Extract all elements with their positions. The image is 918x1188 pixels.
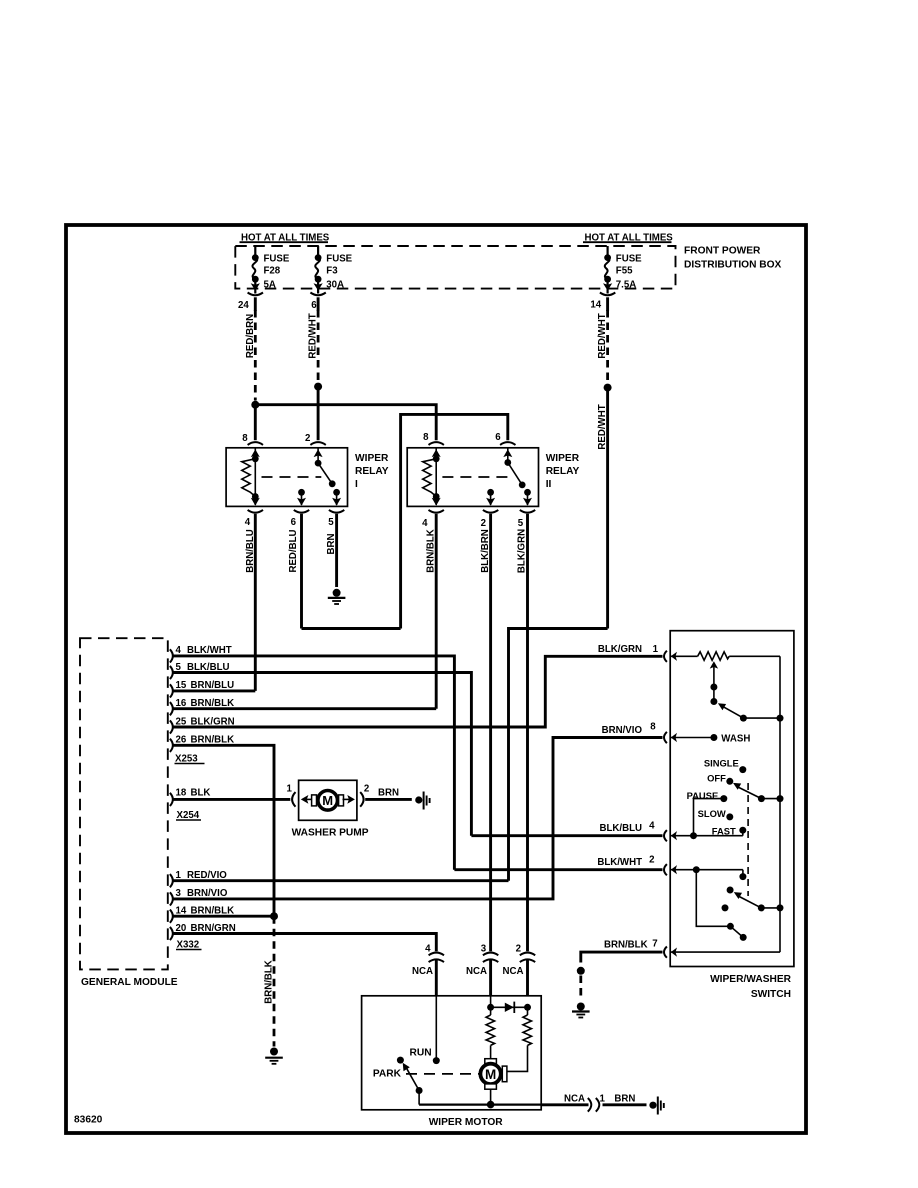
svg-text:4: 4 <box>422 518 428 529</box>
svg-text:4: 4 <box>245 517 251 528</box>
svg-text:5: 5 <box>328 517 334 528</box>
wire node bus to relay II pin 8 <box>255 405 436 441</box>
wire BRN washer pump to ground <box>365 788 412 800</box>
relay I pin 2 connector <box>305 433 326 445</box>
wire bus vertical upper <box>779 656 781 718</box>
svg-text:WIPER: WIPER <box>546 453 580 464</box>
svg-text:2: 2 <box>305 433 310 444</box>
connector X253 <box>175 753 205 764</box>
wire BRN/BLK switch pin 7 to ground <box>581 952 663 962</box>
connector X332 <box>176 939 202 950</box>
svg-text:BLK/BRN: BLK/BRN <box>480 529 491 573</box>
svg-text:7.5A: 7.5A <box>616 279 636 290</box>
washer pump box <box>292 780 369 838</box>
svg-text:1: 1 <box>600 1093 606 1104</box>
wire to relay I pin 2 <box>317 387 320 441</box>
svg-text:M: M <box>485 1067 496 1082</box>
svg-text:8: 8 <box>242 433 248 444</box>
node HOT AT ALL TIMES (left) <box>240 232 330 243</box>
resistor (motor, right) <box>507 1007 532 1071</box>
svg-text:WASH: WASH <box>721 733 750 744</box>
switch internal: pot section <box>671 652 784 722</box>
fuse F55 7.5A <box>603 246 642 291</box>
relay II switch contact <box>503 448 532 506</box>
wiper motor pin 4 connector NCA <box>412 943 444 996</box>
node HOT AT ALL TIMES (right) <box>583 232 673 243</box>
node junction on pin 7 ground wire <box>577 967 585 975</box>
relay I switch contact <box>314 448 342 506</box>
svg-text:RELAY: RELAY <box>355 466 389 477</box>
module pin 26 BRN/BLK <box>170 735 274 917</box>
wire BRN/BLK dashed to ground (bottom left) <box>263 916 274 1046</box>
switch pin 4 connector BLK/BLU <box>599 821 677 842</box>
connector X254 <box>176 810 201 821</box>
relay II pin 6 connector <box>495 432 515 445</box>
dashed mechanical link (park) <box>406 1073 480 1075</box>
fuse F3 30A <box>314 246 353 291</box>
svg-text:6: 6 <box>311 300 317 311</box>
svg-text:6: 6 <box>495 432 501 443</box>
resistor (motor, left) <box>486 1015 495 1059</box>
switch internal: wiper speed contacts <box>671 718 784 952</box>
relay I actuation dashed link <box>262 476 322 478</box>
svg-text:RELAY: RELAY <box>546 466 580 477</box>
wire pin1 to resistor <box>671 655 698 657</box>
module pin 5 BLK/BLU <box>170 662 472 836</box>
svg-text:RUN: RUN <box>410 1048 432 1059</box>
svg-text:II: II <box>546 479 552 490</box>
svg-text:5: 5 <box>518 518 524 529</box>
switch pin 7 connector BRN/BLK <box>604 939 677 958</box>
svg-text:GENERAL MODULE: GENERAL MODULE <box>81 977 178 988</box>
ground (BRN/BLK, bottom left) <box>265 1048 283 1064</box>
svg-text:NCA: NCA <box>466 966 487 977</box>
wire NCA 1 BRN to ground <box>541 1093 646 1111</box>
svg-text:BLK/GRN: BLK/GRN <box>517 529 528 573</box>
svg-text:BLK: BLK <box>191 788 211 799</box>
svg-text:24: 24 <box>238 300 249 311</box>
module pin 1 RED/VIO <box>170 870 509 887</box>
svg-text:OFF: OFF <box>707 773 726 784</box>
svg-text:FUSE: FUSE <box>326 254 352 265</box>
module pin 18 BLK to washer pump <box>170 788 290 806</box>
svg-text:X253: X253 <box>175 753 198 764</box>
module pin 16 BRN/BLK <box>170 698 436 715</box>
svg-text:WIPER MOTOR: WIPER MOTOR <box>429 1117 504 1128</box>
svg-text:DISTRIBUTION BOX: DISTRIBUTION BOX <box>684 260 782 271</box>
ground (BRN/BLK, switch) <box>572 1003 590 1018</box>
wire BLK/GRN relay II pin 5 to wiper motor pin 2 <box>517 514 528 951</box>
svg-text:PARK: PARK <box>373 1069 402 1080</box>
relay II actuation dashed link <box>442 476 509 478</box>
module pin 25 BLK/GRN to switch pin 1 <box>170 656 663 733</box>
wire RED/WHT corner to RED/VIO run <box>509 629 608 881</box>
ground (BRN, washer pump) <box>415 792 429 810</box>
module pin 4 BLK/WHT <box>170 645 455 870</box>
switch pin 2 connector BLK/WHT <box>597 855 677 876</box>
wire relay I pin6 to relay II pin 6 (upper run) <box>401 414 508 628</box>
svg-text:F55: F55 <box>616 265 633 276</box>
wire RED/WHT (dashed, fuse F3) <box>308 310 319 382</box>
relay II pin 4 connector <box>422 510 444 529</box>
wire BRN/BLK relay II pin 4 to module pin 16 <box>425 514 436 709</box>
svg-text:BRN/BLU: BRN/BLU <box>245 529 256 573</box>
node junction on F55 RED/WHT <box>604 384 612 392</box>
relay I pin 5 connector <box>328 510 344 528</box>
svg-text:M: M <box>322 793 333 808</box>
svg-text:SINGLE: SINGLE <box>704 757 739 768</box>
ground (BRN, wiper motor) <box>649 1097 663 1115</box>
node junction on RED/BRN <box>251 401 259 409</box>
motor bottom rail <box>419 1101 541 1109</box>
svg-text:BRN/BLK: BRN/BLK <box>604 940 648 951</box>
svg-text:I: I <box>355 479 358 490</box>
svg-text:X332: X332 <box>177 939 200 950</box>
pin 24 connector (fuse box) <box>238 289 263 311</box>
svg-text:WIPER: WIPER <box>355 453 389 464</box>
wire BLK/WHT to switch pin 2 <box>454 868 662 871</box>
pot wiper arrow <box>710 661 718 668</box>
svg-text:1: 1 <box>287 784 293 795</box>
wire BLK/BRN relay II pin 2 to wiper motor pin 3 <box>480 514 491 951</box>
svg-text:4: 4 <box>425 943 431 954</box>
svg-text:BLK/WHT: BLK/WHT <box>597 857 642 868</box>
svg-text:8: 8 <box>650 722 656 733</box>
svg-text:7: 7 <box>652 939 657 950</box>
svg-text:RED/WHT: RED/WHT <box>308 313 319 358</box>
svg-text:SWITCH: SWITCH <box>751 989 791 1000</box>
svg-text:30A: 30A <box>326 279 344 290</box>
switch pin 1 connector BLK/GRN <box>598 644 677 662</box>
svg-text:2: 2 <box>649 855 654 866</box>
relay II pin 2 contact <box>486 489 495 506</box>
pin 14 connector (fuse box) <box>590 289 615 311</box>
svg-text:RED/BRN: RED/BRN <box>245 314 256 358</box>
svg-text:BLK/GRN: BLK/GRN <box>598 644 642 655</box>
svg-text:2: 2 <box>516 943 521 954</box>
svg-text:NCA: NCA <box>503 966 524 977</box>
svg-text:SLOW: SLOW <box>698 808 726 819</box>
svg-text:RED/WHT: RED/WHT <box>597 313 608 358</box>
svg-text:X254: X254 <box>177 810 200 821</box>
svg-text:BRN/VIO: BRN/VIO <box>602 725 643 736</box>
wiper/washer switch box <box>670 631 794 1000</box>
svg-text:BLK/BLU: BLK/BLU <box>599 823 642 834</box>
svg-text:2: 2 <box>481 518 486 529</box>
svg-text:FUSE: FUSE <box>264 254 290 265</box>
svg-text:1: 1 <box>653 644 659 655</box>
svg-text:BRN: BRN <box>378 788 399 799</box>
border frame <box>66 225 806 1133</box>
svg-text:F3: F3 <box>326 265 338 276</box>
svg-text:FRONT POWER: FRONT POWER <box>684 246 761 257</box>
svg-text:FAST: FAST <box>712 825 736 836</box>
relay I pin 6 bottom connector <box>291 510 310 528</box>
wire RED/BRN (dashed, fuse F28 to node) <box>245 310 256 401</box>
relay II coil <box>423 448 441 506</box>
svg-text:18: 18 <box>176 788 187 799</box>
wiper motor pin 3 connector NCA <box>466 943 498 996</box>
front power distribution box (dashed) <box>235 246 675 289</box>
svg-text:4: 4 <box>649 821 655 832</box>
wire dashed to ground (switch pin 7) <box>579 976 582 1001</box>
washer pump pin 1 connector <box>287 784 296 807</box>
washer pump motor symbol <box>301 791 355 811</box>
svg-text:RED/BLU: RED/BLU <box>288 529 299 572</box>
diode <box>491 1002 531 1013</box>
svg-text:BRN/BLK: BRN/BLK <box>425 529 436 573</box>
wiper motor internal: pin 3 branch <box>487 996 494 1015</box>
wire resistor to bus <box>729 655 780 657</box>
svg-text:83620: 83620 <box>74 1115 103 1126</box>
svg-text:2: 2 <box>364 784 369 795</box>
motor M (wiper) <box>480 1059 507 1105</box>
ground (BRN, below relay I) <box>328 589 346 604</box>
general module box (dashed) <box>80 638 178 988</box>
svg-text:8: 8 <box>423 432 429 443</box>
relay I pin 6 contact <box>297 489 306 506</box>
wire BRN/BLU relay I pin 4 to module pin 15 <box>245 514 256 691</box>
wire RED/BLU horizontal to upper run <box>302 627 401 630</box>
wire BLK/BLU to switch pin 4 <box>471 834 662 837</box>
switch internal: mode selector <box>671 757 784 839</box>
svg-text:BRN: BRN <box>326 534 337 555</box>
washer pump pin 2 connector <box>360 784 369 807</box>
svg-text:6: 6 <box>291 517 297 528</box>
module pin 15 BRN/BLU <box>170 680 255 697</box>
resistor R (wash/wipe delay pot) <box>698 652 730 661</box>
svg-text:WASHER PUMP: WASHER PUMP <box>292 827 369 838</box>
relay II pin 8 connector <box>423 432 444 445</box>
wire RED/BLU relay I pin 6 down <box>288 514 302 629</box>
wire RED/WHT vertical down from F55 junction <box>597 388 608 629</box>
svg-text:FUSE: FUSE <box>616 254 642 265</box>
label FRONT POWER DISTRIBUTION BOX <box>684 246 782 271</box>
relay I pin 8 connector <box>242 433 263 445</box>
svg-text:WIPER/WASHER: WIPER/WASHER <box>710 974 792 985</box>
wiper motor box <box>362 996 542 1128</box>
pin 6 connector (fuse box) <box>310 289 325 311</box>
module pin 3 BRN/VIO <box>170 738 663 906</box>
wire BRN relay I pin 5 to ground <box>326 514 337 587</box>
switch pin 8 connector BRN/VIO <box>602 722 677 744</box>
node junction on RED/WHT <box>314 383 322 391</box>
switch arm (intermittent) <box>723 706 744 718</box>
wire RED/WHT (dashed, fuse F55) <box>597 310 608 383</box>
svg-text:NCA: NCA <box>412 966 433 977</box>
relay I pin 4 connector <box>245 510 263 528</box>
fuse F28 5A <box>251 246 290 291</box>
wire to relay I pin 8 <box>254 405 257 441</box>
relay II pin 2 bottom connector <box>481 510 499 529</box>
wiper motor pin 2 connector NCA <box>503 943 536 996</box>
switch internal: dashed coupler <box>747 783 749 896</box>
svg-text:F28: F28 <box>264 265 281 276</box>
svg-text:NCA: NCA <box>564 1093 585 1104</box>
switch internal: WASH contact <box>671 733 751 744</box>
relay II pin 5 connector <box>518 510 535 529</box>
svg-text:5A: 5A <box>264 279 276 290</box>
relay I coil <box>242 448 260 506</box>
svg-text:BRN: BRN <box>614 1093 635 1104</box>
relay WIPER RELAY I <box>226 448 389 507</box>
module pin 14 BRN/BLK <box>170 906 278 923</box>
relay WIPER RELAY II <box>407 448 580 507</box>
module pin 20 BRN/GRN to wiper motor pin 4 <box>170 923 436 951</box>
park/run switch <box>373 996 440 1105</box>
svg-text:RED/WHT: RED/WHT <box>597 404 608 449</box>
svg-text:14: 14 <box>590 300 601 311</box>
svg-text:BRN/BLK: BRN/BLK <box>263 960 274 1004</box>
